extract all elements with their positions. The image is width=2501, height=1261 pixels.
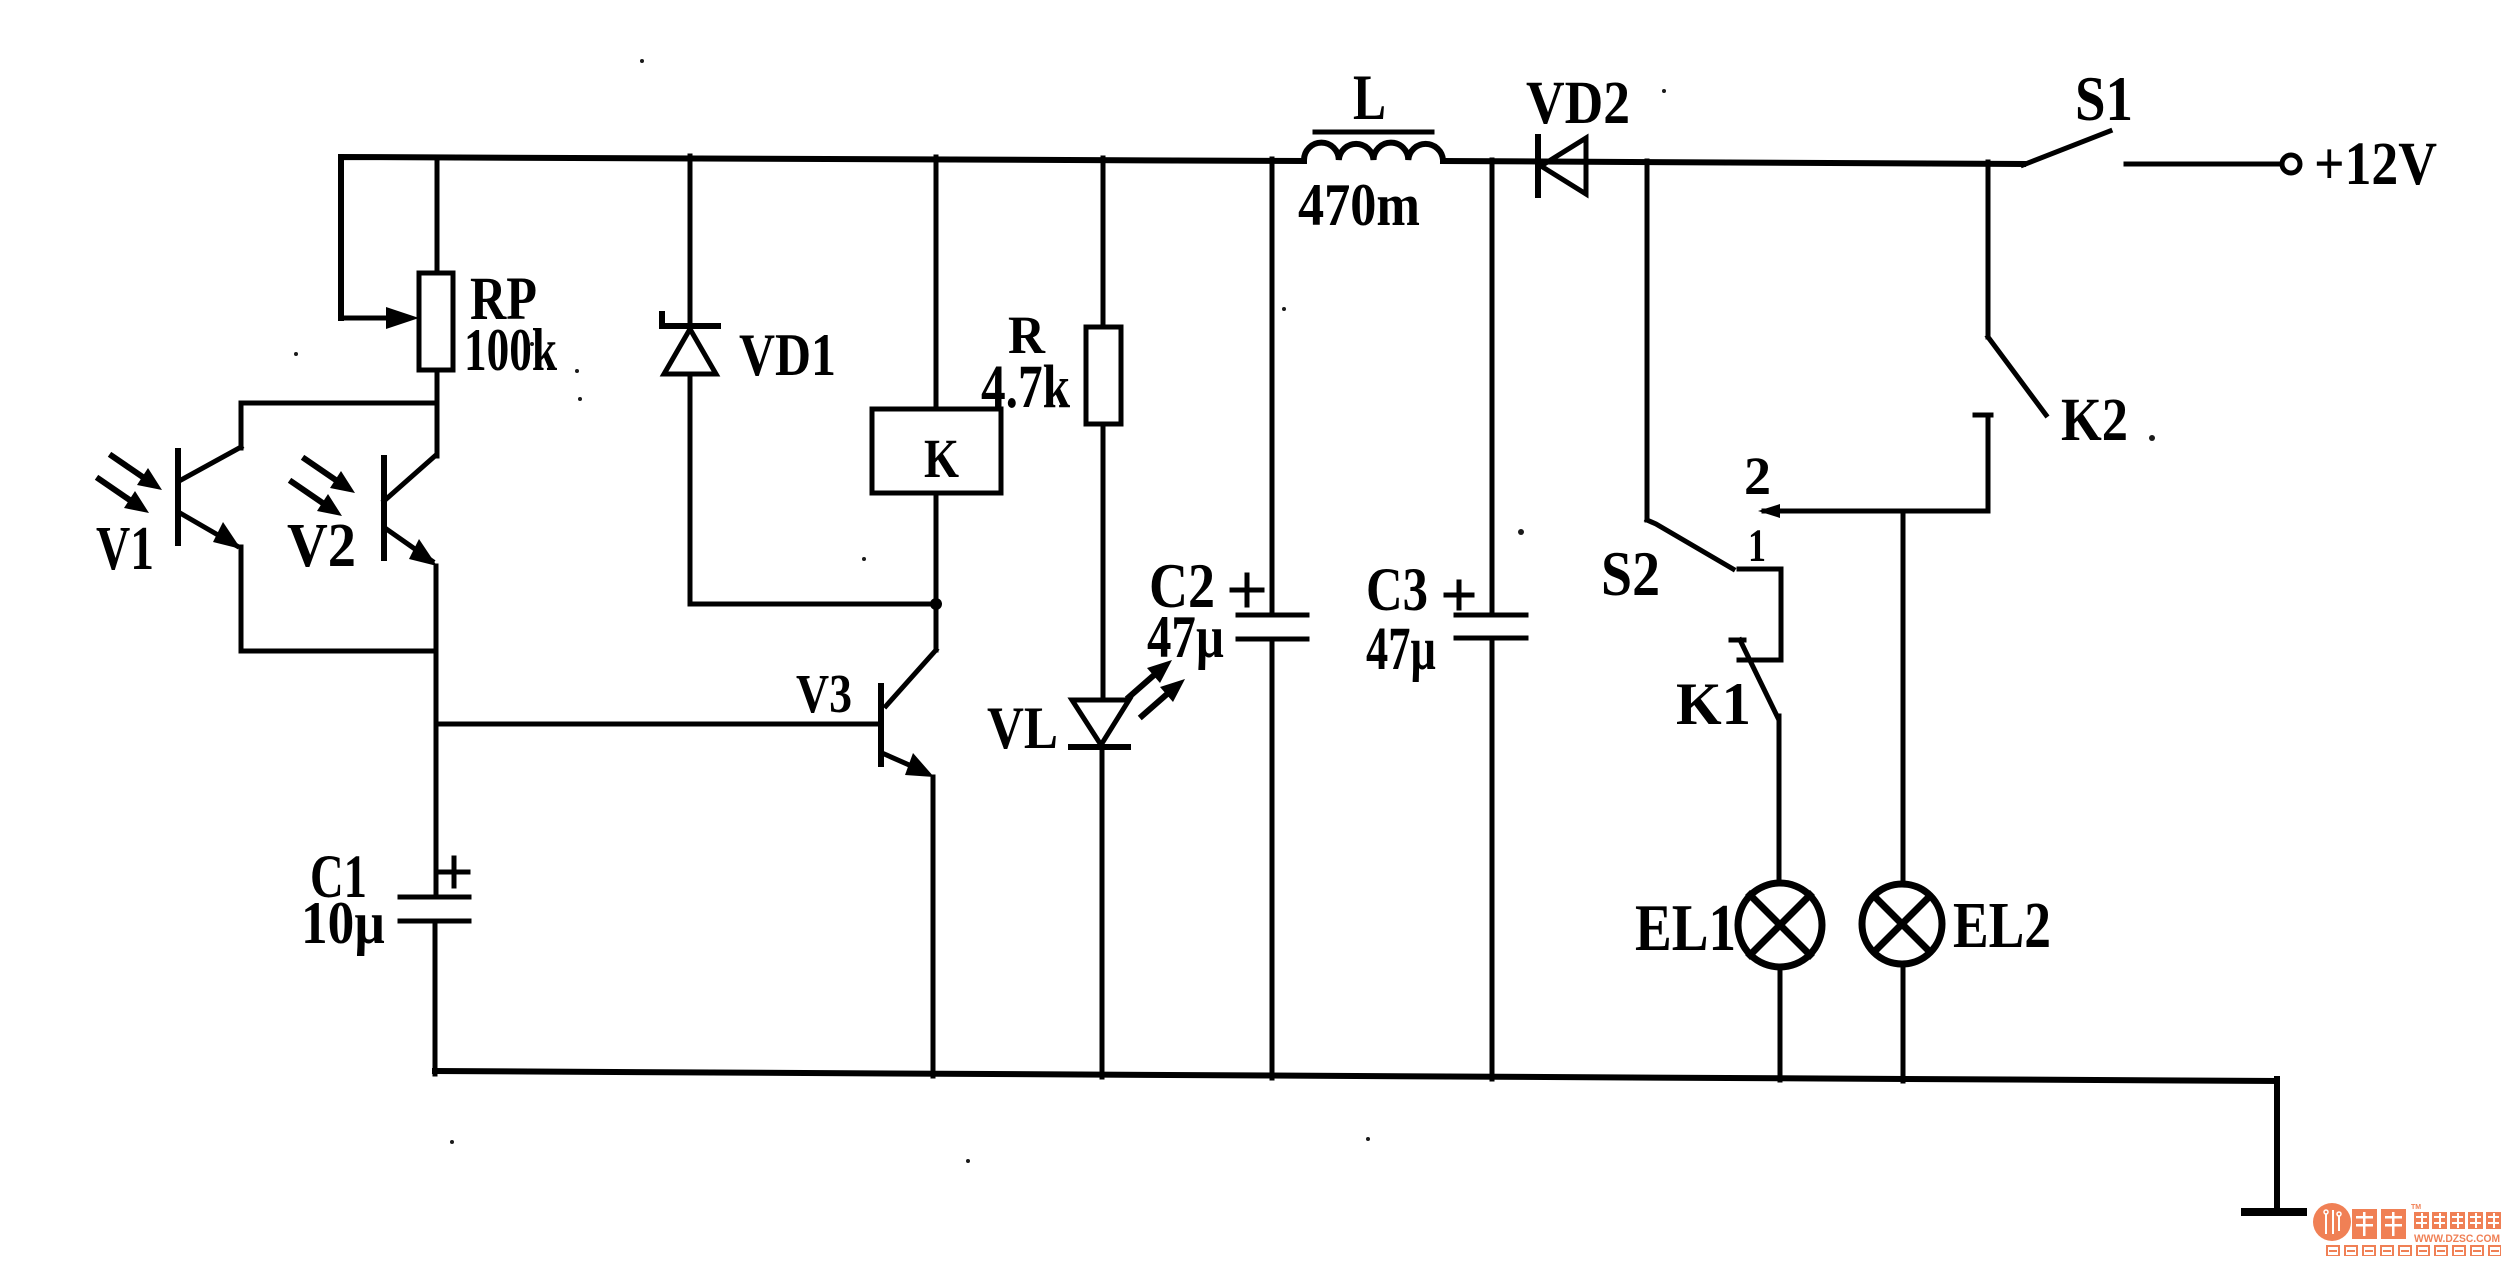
switch S2 blade xyxy=(1647,520,1733,569)
svg-text:100k: 100k xyxy=(464,317,557,383)
diode VD1 cathode bar xyxy=(662,314,718,326)
lamp EL1 circle xyxy=(1738,883,1822,967)
capacitor C2 bottom plate xyxy=(1238,637,1307,642)
switch K1 fixed tick xyxy=(1731,638,1744,643)
wire K relay top xyxy=(934,157,939,409)
V1 light arrow 1 xyxy=(112,456,150,482)
potentiometer RP body xyxy=(419,273,453,370)
wire K2 branch vertical xyxy=(1986,162,1991,337)
transistor V3 emitter xyxy=(882,753,925,772)
wire C2 top xyxy=(1270,159,1275,615)
resistor R body xyxy=(1086,327,1121,424)
S2 contact 1 tick xyxy=(1739,567,1781,572)
svg-text:K1: K1 xyxy=(1676,671,1751,737)
wire K relay bottom xyxy=(934,493,939,604)
wire C3 top xyxy=(1490,160,1495,615)
label L underline xyxy=(1315,130,1432,135)
svg-text:VD2: VD2 xyxy=(1526,70,1630,137)
switch K1 blade xyxy=(1740,640,1778,718)
svg-text:2: 2 xyxy=(1744,446,1771,506)
svg-text:TM: TM xyxy=(2411,1204,2421,1211)
VL light arrow 2 head xyxy=(1160,679,1185,702)
VL light arrow 1 xyxy=(1129,669,1161,697)
watermark logo circle xyxy=(2313,1203,2351,1241)
diode VD1 triangle xyxy=(664,329,716,374)
inductor L winding xyxy=(1304,143,1443,160)
transistor V2 base bar xyxy=(381,458,387,558)
wire V3 emitter to bottom xyxy=(931,777,936,1076)
diode VD2 triangle xyxy=(1541,138,1586,194)
wire bottom main xyxy=(435,1071,2277,1081)
svg-text:S1: S1 xyxy=(2075,63,2133,134)
svg-text:4.7k: 4.7k xyxy=(981,354,1070,421)
watermark slogan xyxy=(2327,1246,2501,1256)
wire top main left segment xyxy=(341,157,1304,318)
V1 emitter arrowhead xyxy=(213,522,241,549)
V1 light arrow 2 head xyxy=(124,491,149,513)
wire V3 collector riser xyxy=(934,604,939,650)
C1 plus sign xyxy=(440,858,468,886)
wire VL bottom xyxy=(1100,747,1105,1077)
svg-text:+12V: +12V xyxy=(2314,131,2437,198)
wire EL2 top xyxy=(1901,511,1906,884)
svg-text:V2: V2 xyxy=(287,512,356,580)
diode VD2 cathode bar xyxy=(1535,137,1541,195)
terminal circle +12V xyxy=(2282,155,2300,173)
svg-text:47µ: 47µ xyxy=(1366,616,1436,683)
V2 light arrow 1 head xyxy=(330,471,355,493)
capacitor C1 top plate xyxy=(400,895,469,900)
node bottom box line V1 V2 emitters xyxy=(241,649,436,654)
svg-text:S2: S2 xyxy=(1601,539,1660,609)
scan speckles xyxy=(294,59,2155,1163)
wire V3 base xyxy=(436,722,878,727)
V2 light arrow 2 head xyxy=(317,494,342,516)
VL light arrow 1 head xyxy=(1147,660,1172,683)
svg-text:L: L xyxy=(1353,62,1386,134)
switch S1 blade xyxy=(2023,131,2110,165)
capacitor C3 top plate xyxy=(1456,613,1526,618)
svg-text:EL2: EL2 xyxy=(1953,889,2051,962)
svg-text:WWW.DZSC.COM: WWW.DZSC.COM xyxy=(2414,1233,2500,1245)
lamp EL2 circle xyxy=(1862,884,1942,964)
svg-text:V1: V1 xyxy=(96,515,154,583)
watermark char wei xyxy=(2352,1209,2406,1239)
transistor V1 base bar xyxy=(175,451,181,543)
wire RP bottom xyxy=(435,370,440,456)
wire contact 2 line xyxy=(1764,509,1988,514)
V2 light arrow 1 xyxy=(305,459,343,485)
C2 plus sign xyxy=(1232,575,1262,605)
C3 plus sign xyxy=(1446,582,1472,608)
transistor V1 collector xyxy=(181,447,241,480)
transistor V2 collector xyxy=(384,455,436,501)
wire V1 emitter riser xyxy=(239,547,244,651)
transistor V2 emitter xyxy=(385,528,432,561)
wire VD1 bottom xyxy=(688,374,693,604)
svg-text:C3: C3 xyxy=(1366,557,1428,624)
wire top main right segment xyxy=(1443,161,2023,164)
wire S1 to terminal xyxy=(2126,162,2280,167)
V1 light arrow 1 head xyxy=(137,468,162,490)
svg-text:EL1: EL1 xyxy=(1635,891,1736,965)
wire RP top xyxy=(435,158,440,273)
V2 light arrow 2 xyxy=(292,482,330,508)
wire ground drop xyxy=(2274,1079,2280,1211)
wire R bottom to VL xyxy=(1101,424,1106,700)
svg-text:47µ: 47µ xyxy=(1147,604,1224,670)
wire EL1 top xyxy=(1777,716,1782,883)
LED VL cathode bar xyxy=(1071,744,1128,750)
svg-text:V3: V3 xyxy=(796,663,852,724)
ground bar xyxy=(2245,1208,2303,1216)
relay K body xyxy=(872,409,1001,493)
wire VD1 to V3 junction xyxy=(690,602,936,607)
wire C2 bottom xyxy=(1270,639,1275,1078)
svg-text:10µ: 10µ xyxy=(301,890,385,956)
wire S2 branch vertical xyxy=(1645,161,1650,520)
S2 bracket bottom tick xyxy=(1739,658,1781,663)
capacitor C1 bottom plate xyxy=(400,919,469,924)
V2 emitter arrowhead xyxy=(409,539,437,566)
svg-text:VD1: VD1 xyxy=(739,322,836,388)
wire C1 to bottom xyxy=(433,921,438,1074)
wire EL2 bottom xyxy=(1901,964,1906,1081)
node top box line V1 V2 collectors xyxy=(241,401,437,406)
wire R top xyxy=(1101,158,1106,327)
wire left main vertical xyxy=(434,566,439,897)
wire EL1 bottom xyxy=(1778,967,1783,1080)
K2 lower contact xyxy=(1975,415,1991,511)
svg-text:K: K xyxy=(924,428,959,489)
switch K2 blade xyxy=(1988,337,2046,415)
contact 2 arrow tip xyxy=(1758,504,1780,518)
V3 emitter arrowhead xyxy=(905,753,934,777)
wiper arrowhead xyxy=(386,307,419,329)
wire V1 collector riser xyxy=(239,403,244,448)
V1 light arrow 2 xyxy=(99,479,137,505)
lamp EL2 cross xyxy=(1874,896,1930,952)
S2 bracket vertical xyxy=(1779,569,1784,660)
transistor V3 collector xyxy=(886,650,936,706)
wire VD1 top xyxy=(688,156,693,326)
svg-text:1: 1 xyxy=(1748,520,1766,572)
LED VL triangle xyxy=(1072,700,1129,745)
watermark chars dianzishichangwang xyxy=(2414,1212,2501,1229)
lamp EL1 cross xyxy=(1750,895,1810,955)
node junction dot xyxy=(930,598,942,610)
transistor V1 emitter xyxy=(180,513,237,546)
svg-text:K2: K2 xyxy=(2061,387,2128,454)
transistor V3 base bar xyxy=(878,686,884,764)
wire RP wiper arm xyxy=(341,316,390,321)
capacitor C2 top plate xyxy=(1238,613,1307,618)
svg-text:470m: 470m xyxy=(1298,172,1420,238)
VL light arrow 2 xyxy=(1142,688,1174,716)
wire C3 bottom xyxy=(1490,638,1495,1079)
svg-text:VL: VL xyxy=(987,695,1058,761)
capacitor C3 bottom plate xyxy=(1456,636,1526,641)
